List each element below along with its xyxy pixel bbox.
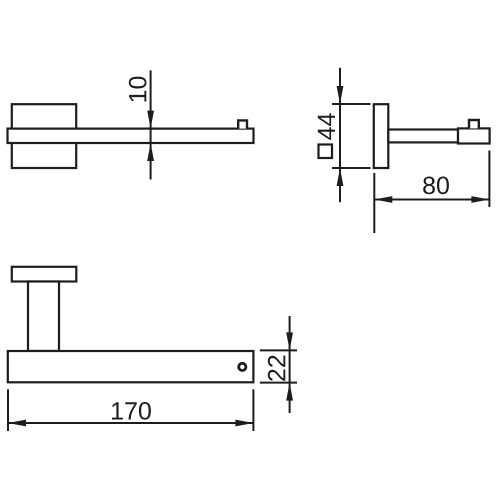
dimension 170: label	[112, 402, 151, 420]
dimension 170: right extension line	[252, 389, 254, 431]
dimension 22: upper arrowhead	[286, 332, 293, 350]
side view: end block	[458, 128, 490, 143]
dimension 10: label	[129, 77, 147, 102]
top view: post	[28, 282, 59, 352]
dimension 22: top extension line	[260, 349, 297, 351]
dimension 170: left arrowhead	[8, 420, 26, 427]
dimension 44: bottom extension line	[332, 167, 371, 169]
dimension 44: label	[318, 113, 335, 140]
dimension 80: left extension line	[373, 173, 375, 233]
dimension 80: label	[423, 177, 449, 195]
dimension 80: dimension line	[374, 199, 489, 201]
dimension 170: left extension line	[7, 389, 9, 431]
dimension 44: square symbol	[319, 145, 333, 159]
dimension 10: dimension line	[150, 70, 152, 179]
dimension 44: dimension line	[339, 68, 341, 203]
dimension 44: upper arrowhead	[337, 86, 344, 104]
dimension 22: dimension line	[289, 316, 291, 413]
dimension 22: bottom extension line	[260, 382, 297, 384]
dimension 22: label	[268, 356, 286, 381]
dimension 10: lower arrowhead	[147, 143, 154, 161]
dimension 170: right arrowhead	[235, 420, 253, 427]
dimension 10: upper arrowhead	[147, 111, 154, 129]
top view: bar	[8, 351, 254, 382]
front view: roll bar	[8, 129, 254, 143]
dimension 22: lower arrowhead	[286, 383, 293, 401]
dimension 80: right extension line	[488, 151, 490, 208]
dimension 170: dimension line	[8, 422, 253, 424]
dimension 80: right arrowhead	[471, 196, 489, 203]
top view: flange	[12, 267, 77, 282]
dimension 80: left arrowhead	[374, 196, 392, 203]
top view: hole	[239, 363, 246, 370]
dimension 44: top extension line	[332, 103, 371, 105]
dimension 44: lower arrowhead	[337, 168, 344, 186]
front view: wall plate (square)	[12, 104, 76, 168]
side view: stopper bump	[469, 120, 479, 128]
side view: wall plate	[374, 104, 389, 168]
side view: arm	[388, 130, 458, 143]
front view: roll stopper bump	[238, 120, 247, 128]
